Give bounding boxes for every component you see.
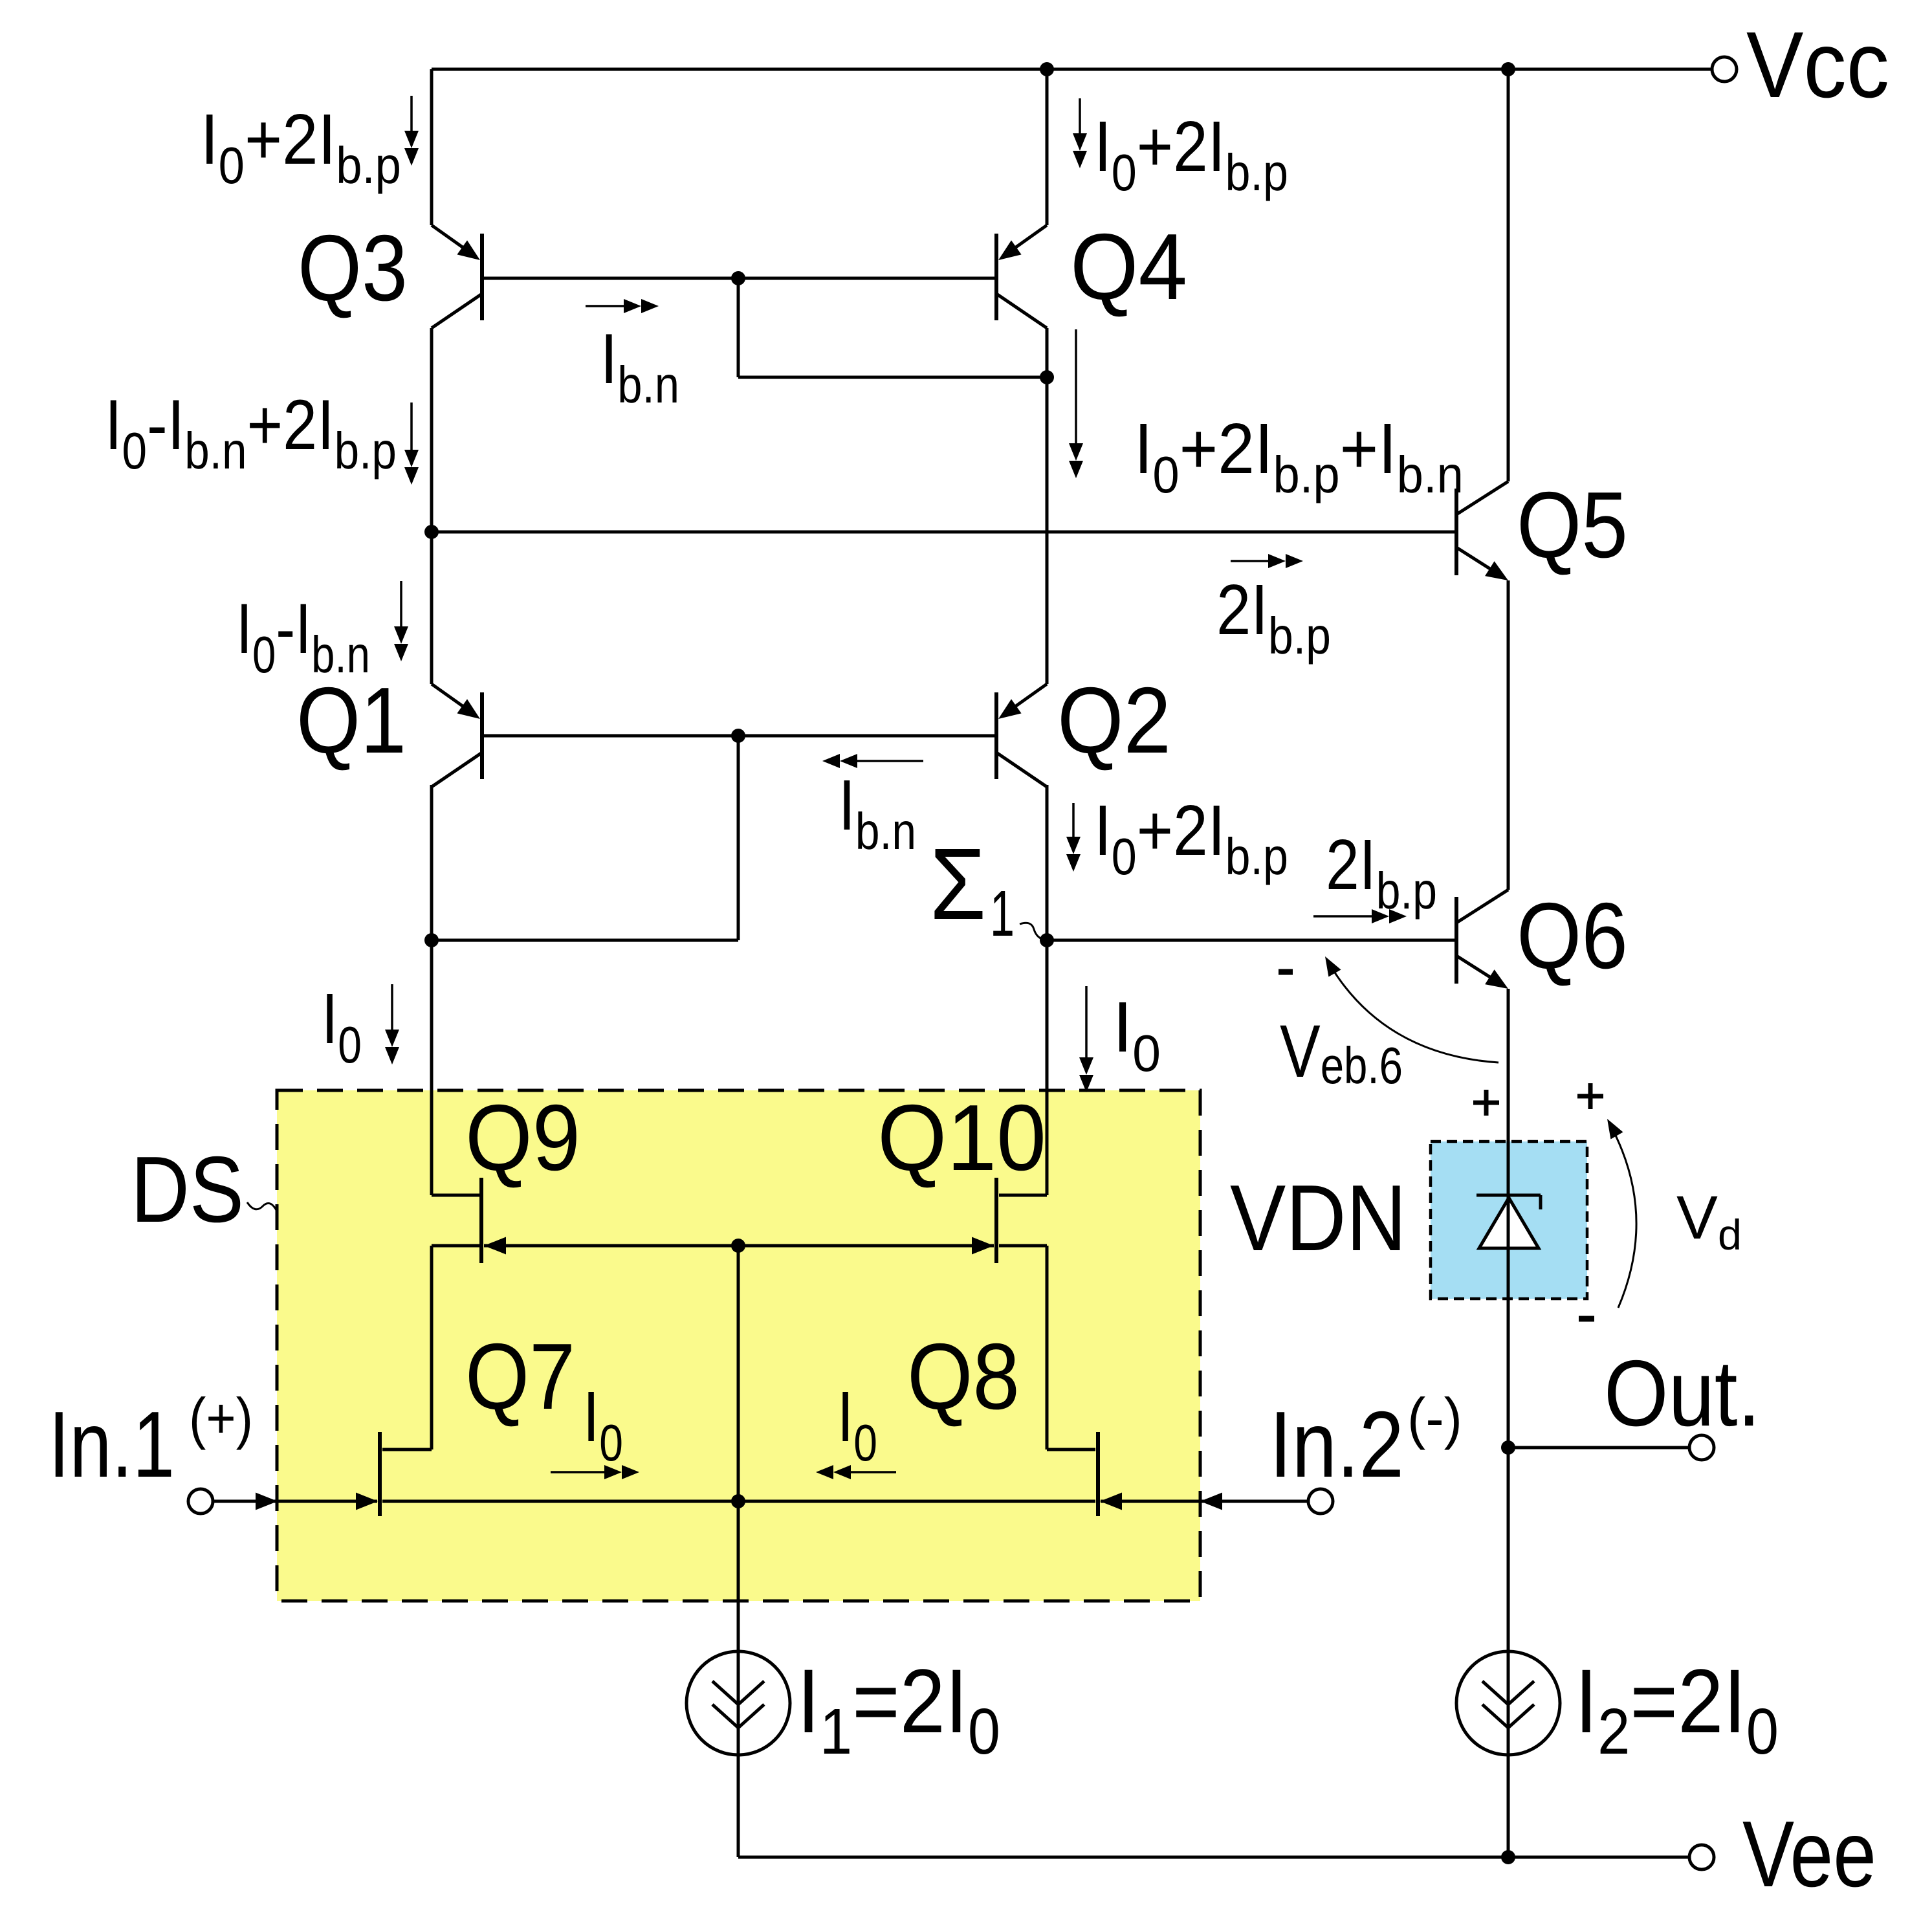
wire Q3 emitter from Vcc (430, 69, 434, 225)
wire base-tie to mirror link (vertical) (737, 278, 740, 377)
label In.1 (49, 1392, 175, 1497)
arrow Ib.n (Q1/Q2 base current) (822, 754, 923, 768)
transistor Q1 base bar (480, 692, 484, 779)
transistor Q7 input arrow (356, 1493, 378, 1510)
label In.2 (1269, 1392, 1404, 1497)
transistor Q6 emitter diagonal with arrow (1456, 956, 1508, 989)
arrow Ib.n (Q3/Q4 base current) (586, 299, 659, 313)
transistor Q3 base bar (480, 234, 484, 320)
wire node S1 down to Q10 (1046, 940, 1049, 1195)
transistor Q6 base bar (1454, 897, 1458, 984)
label I1=2I0 (797, 1651, 1000, 1768)
transistor Q3 collector diagonal (432, 294, 482, 328)
transistor Q1 emitter diagonal with arrow (432, 684, 480, 719)
label I2=2I0 (1575, 1651, 1779, 1768)
wire row-A from center to Q9 emitter (484, 1244, 738, 1248)
label I0-Ib.n (236, 589, 370, 683)
wire Q1 collector to Q9 (430, 940, 434, 1195)
wire mirror link row (738, 376, 1047, 379)
junction Q3 collector node (424, 525, 439, 539)
svg-text:Q3: Q3 (298, 215, 408, 320)
svg-text:Q5: Q5 (1517, 473, 1628, 578)
label I0 (left, into Q9) (322, 980, 362, 1074)
svg-text:Q4: Q4 (1070, 214, 1187, 319)
transistor Q4 collector diagonal (996, 294, 1047, 328)
arrow I0 (right, into Q10) (1079, 986, 1093, 1092)
wire Q3 collector down (430, 328, 434, 532)
svg-text:DS: DS (131, 1137, 244, 1242)
arrow 2Ib.p (Q6 base current) (1313, 909, 1407, 923)
transistor Q8 base bar (1096, 1432, 1100, 1516)
label I0+2Ib.p (at Q2 collector) (1094, 790, 1288, 885)
arrow I0-Ib.n+2Ib.p (404, 402, 419, 485)
arrow In.1 signal at DS edge (256, 1493, 278, 1510)
label DS (131, 1137, 244, 1242)
svg-text:Q2: Q2 (1057, 668, 1171, 773)
wire Q7 collector step (382, 1448, 432, 1451)
transistor Q2 collector diagonal (996, 753, 1047, 787)
svg-text:VDN: VDN (1230, 1166, 1407, 1270)
label plus (Q6 emitter) (1473, 1090, 1499, 1116)
arrow Veb.6 (curved) (1325, 956, 1498, 1063)
wire Q1-Q2 base tie (484, 734, 994, 738)
terminal In.1 (188, 1489, 213, 1514)
arrow I0+2Ib.p (left top) (404, 96, 419, 166)
wire input row through Q7 to Q8 (382, 1500, 1095, 1503)
label DS squiggle (247, 1202, 277, 1211)
diode VDN triangle (1479, 1198, 1539, 1248)
junction Q1 base diode connection (731, 729, 745, 743)
wire I1 to Vee rail (737, 1755, 740, 1857)
wire In.1 input line (213, 1500, 377, 1503)
label In.2 superscript (-) (1407, 1387, 1462, 1451)
transistor Q3 emitter diagonal with arrow (432, 225, 480, 260)
wire row-A from center to Q10 emitter (738, 1244, 994, 1248)
svg-text:In.1: In.1 (49, 1392, 175, 1497)
wire output row (1508, 1446, 1689, 1450)
svg-text:(-): (-) (1407, 1387, 1462, 1451)
label I0+2Ib.p+Ib.n (1134, 410, 1464, 504)
arrow Vd (curved) (1607, 1119, 1636, 1308)
svg-text:Out.: Out. (1604, 1341, 1761, 1446)
svg-text:(+): (+) (189, 1386, 253, 1450)
wire through VDN redraw (1507, 1195, 1510, 1299)
transistor Q4 base bar (994, 234, 998, 320)
label VDN (1230, 1166, 1407, 1270)
current source I1 (circle with double chevron) (686, 1651, 790, 1755)
arrow 2Ib.p (Q5 base current) (1231, 554, 1303, 568)
wire Q4 collector down to Q2 emitter (1046, 328, 1049, 684)
junction link at Q4 collector (1040, 370, 1054, 384)
junction node S1 (1040, 933, 1054, 947)
label I0-Ib.n+2Ib.p (105, 385, 397, 480)
label Q8 (907, 1325, 1020, 1429)
label I0 (Q8 current) (837, 1378, 877, 1472)
terminal Vcc (1712, 57, 1737, 82)
junction Q5 collector at Vcc (1501, 62, 1515, 76)
transistor Q10 base bar (994, 1178, 998, 1263)
wire Vcc rail (432, 68, 1712, 71)
transistor Q6 collector diagonal (1456, 890, 1508, 923)
terminal Out (1689, 1435, 1714, 1460)
transistor Q5 emitter diagonal with arrow (1456, 547, 1508, 580)
transistor Q9 emitter arrow from row-A (484, 1237, 506, 1255)
label Q10 (877, 1086, 1046, 1191)
svg-text:Q9: Q9 (465, 1085, 580, 1190)
label Q2 (1057, 668, 1171, 773)
junction base tie to link (731, 271, 745, 285)
wire Q2 collector down to node S1 (1046, 785, 1049, 940)
wire row-A right segment at Q10 (999, 1244, 1047, 1248)
wire Q3-Q4 base tie (484, 277, 994, 280)
wire DS right vertical Q10-Q8 (1046, 1246, 1049, 1450)
label Ib.n (Q3/Q4 base current) (600, 318, 679, 413)
label Q3 (298, 215, 408, 320)
terminal Vee (1689, 1845, 1714, 1869)
wire Q9 collector step (432, 1194, 479, 1197)
label Vd (1676, 1184, 1742, 1259)
label minus (Vd) (1579, 1316, 1594, 1322)
transistor Q5 base bar (1454, 489, 1458, 575)
wire I2 to Vee rail (1507, 1755, 1510, 1857)
svg-text:Σ: Σ (930, 827, 986, 941)
wire node row to Q5 base (432, 531, 1454, 534)
wire DS left vertical Q9-Q7 (430, 1246, 434, 1450)
wire Q8 collector step (1047, 1448, 1095, 1451)
DS differential-stage block (yellow dashed box) (277, 1090, 1200, 1601)
VDN voltage-drop network block (blue dashed box) (1431, 1141, 1587, 1299)
svg-text:Vee: Vee (1742, 1802, 1876, 1906)
svg-text:Q10: Q10 (877, 1086, 1046, 1191)
svg-text:Vcc: Vcc (1746, 13, 1889, 118)
wire Vee rail (738, 1856, 1689, 1859)
label 2Ib.p (Q5 base current) (1216, 570, 1331, 665)
wire DS center column (737, 1246, 740, 1501)
wire Q5 emitter down to Q6 collector (1507, 580, 1510, 890)
junction DS input row center (731, 1494, 745, 1508)
label Q7 (465, 1323, 575, 1429)
wire Q6 emitter through VDN to output (1507, 989, 1510, 1448)
label plus (Vd) (1577, 1083, 1603, 1109)
wire DS tail to I1 (737, 1501, 740, 1651)
junction Q1 collector node (424, 933, 439, 947)
wire row-A left segment at Q9 (432, 1244, 479, 1248)
label I0+2Ib.p (right top) (1094, 106, 1288, 201)
wire node S1 to Q6 base (1047, 939, 1454, 942)
label Vee (1742, 1802, 1876, 1906)
arrow I0+2Ib.p+Ib.n (1069, 329, 1083, 478)
transistor Q4 emitter diagonal with arrow (998, 225, 1047, 260)
transistor Q9 base bar (479, 1178, 483, 1263)
junction Q4 emitter at Vcc (1040, 62, 1054, 76)
junction output node (1501, 1440, 1515, 1455)
wire Q1 diode-connection vertical (737, 736, 740, 940)
arrow In.2 signal at DS edge (1200, 1493, 1222, 1510)
wire output node to I2 (1507, 1448, 1510, 1651)
current source I2 (circle with double chevron) (1456, 1651, 1560, 1755)
diode VDN cathode bar with tick (1476, 1195, 1541, 1209)
label Out. (1604, 1341, 1761, 1446)
junction Vee at I2 (1501, 1850, 1515, 1864)
transistor Q5 collector diagonal (1456, 481, 1508, 514)
label minus (Veb.6) (1279, 969, 1293, 975)
arrow I0+2Ib.p (at Q2 collector) (1066, 803, 1081, 872)
wire Q1 diode-connection row (432, 939, 738, 942)
wire Q10 collector step (999, 1194, 1047, 1197)
svg-text:In.2: In.2 (1269, 1392, 1404, 1497)
arrow I0 (Q7 current) (551, 1465, 639, 1479)
svg-text:Q8: Q8 (907, 1325, 1020, 1429)
svg-text:1: 1 (990, 877, 1015, 950)
transistor Q7 base bar (378, 1432, 382, 1516)
label 2Ib.p (Q6 base current) (1326, 825, 1437, 920)
label Q9 (465, 1085, 580, 1190)
arrow I0 (Q8 current) (816, 1465, 896, 1479)
terminal In.2 (1308, 1489, 1333, 1514)
label Veb.6 (1280, 1010, 1403, 1094)
label Ib.n (Q1/Q2 base current) (839, 766, 916, 861)
transistor Q8 input arrow (1100, 1493, 1122, 1510)
svg-text:Q6: Q6 (1517, 884, 1628, 989)
wire Q5 collector to Vcc (1507, 69, 1510, 481)
arrow I0-Ib.n (394, 581, 408, 661)
node S1 label sigma (930, 827, 1015, 950)
label Q4 (1070, 214, 1187, 319)
wire Q8 to In.2 terminal (1101, 1500, 1308, 1503)
label I0 (Q7 current) (583, 1378, 623, 1472)
wire Q1 collector down (430, 785, 434, 940)
node S1 squiggle (1020, 923, 1046, 940)
label Vcc (1746, 13, 1889, 118)
arrow I0+2Ib.p (right top) (1073, 98, 1087, 168)
label Q1 (296, 667, 406, 773)
label I0+2Ib.p (left top) (201, 100, 401, 194)
label Q6 (1517, 884, 1628, 989)
transistor Q1 collector diagonal (432, 753, 482, 787)
label I0 (right, into Q10) (1113, 987, 1161, 1082)
wire Q4 emitter from Vcc (1046, 69, 1049, 225)
label In.1 superscript (+) (189, 1386, 253, 1450)
transistor Q2 base bar (994, 692, 998, 779)
svg-text:Q7: Q7 (465, 1323, 575, 1429)
transistor Q2 emitter diagonal with arrow (998, 684, 1047, 719)
junction DS row-A center (731, 1239, 745, 1253)
wire Q1 emitter feed (430, 532, 434, 684)
arrow I0 (left, into Q9) (385, 984, 399, 1064)
transistor Q10 emitter arrow from row-A (972, 1237, 994, 1255)
label Q5 (1517, 473, 1628, 578)
